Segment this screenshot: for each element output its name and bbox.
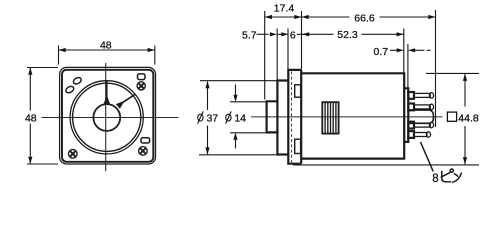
front view inner panel line xyxy=(62,70,153,162)
pin 2 xyxy=(408,104,433,111)
pin 4 xyxy=(408,131,430,138)
pin 1 xyxy=(408,92,433,99)
svg-text:17.4: 17.4 xyxy=(274,3,295,15)
vent grille xyxy=(322,102,338,133)
knob circle xyxy=(93,104,120,131)
dimension phi37 xyxy=(199,81,277,155)
dimension phi14 xyxy=(230,85,266,149)
svg-text:44.8: 44.8 xyxy=(458,112,479,124)
extension line B bezel front xyxy=(276,29,278,81)
label phi37 xyxy=(198,111,204,123)
extension line D body front xyxy=(301,11,303,70)
katakana pi xyxy=(442,171,451,182)
top-left mounting slot 1 xyxy=(72,76,82,85)
diagonal pointer at 45 degrees xyxy=(116,101,125,109)
side view bezel profile xyxy=(277,81,288,155)
side view flange front profile xyxy=(288,70,301,164)
side view horizontal centerline xyxy=(251,116,443,118)
dimension 48 left: dimension line xyxy=(29,68,31,111)
dimension 0.7 leader arrows xyxy=(390,44,431,88)
dial outer circle xyxy=(70,81,143,154)
dimension 52.3 dimension line xyxy=(302,29,404,73)
label phi14 xyxy=(226,111,232,123)
katakana n xyxy=(454,174,457,176)
top-right small rectangle window xyxy=(138,74,146,80)
dimension 66.6 dimension line xyxy=(302,10,436,127)
flange hidden dashed line xyxy=(291,72,293,163)
extension line F pin tips xyxy=(435,10,437,127)
svg-text:48: 48 xyxy=(25,113,37,125)
dimension 48 top: extension lines xyxy=(59,46,155,65)
dimension 48 left: extension lines xyxy=(27,68,58,165)
dimension square 44.8 xyxy=(293,73,479,164)
label square 44.8 xyxy=(447,112,456,121)
svg-text:6: 6 xyxy=(290,29,296,41)
svg-text:14: 14 xyxy=(234,113,246,125)
dial inner ring circle xyxy=(73,83,141,151)
top-left mounting slot 2 xyxy=(65,85,75,94)
svg-text:8: 8 xyxy=(432,173,438,185)
extension line E body rear xyxy=(403,29,405,73)
svg-text:52.3: 52.3 xyxy=(337,29,358,41)
front view vertical centerline xyxy=(105,63,107,171)
dimension 6 arrow and extension xyxy=(277,29,302,70)
top clip on body front xyxy=(295,85,301,97)
side view socket step xyxy=(404,88,408,142)
side view flange back line xyxy=(300,70,302,164)
svg-text:66.6: 66.6 xyxy=(354,12,375,24)
svg-text:0.7: 0.7 xyxy=(373,46,388,58)
bottom-right small rectangle window xyxy=(141,138,150,143)
svg-text:5.7: 5.7 xyxy=(242,29,257,41)
dimension 17.4 dimension line xyxy=(265,16,302,18)
svg-text:37: 37 xyxy=(206,113,218,125)
front view outer panel outline xyxy=(60,67,156,164)
dimension 5.7 leader and arrow xyxy=(257,29,278,81)
dimension 48 top: dimension line xyxy=(59,49,155,51)
bottom-right screw xyxy=(139,147,148,156)
center keying post xyxy=(408,110,433,123)
bottom-left screw xyxy=(69,150,78,159)
8-pin leader line xyxy=(421,142,434,172)
side view knob profile xyxy=(267,70,409,164)
bottom clip on body front xyxy=(295,139,301,153)
pin 3 xyxy=(408,122,433,129)
dimension 17.4 extension line A xyxy=(265,11,302,100)
front view horizontal centerline xyxy=(42,117,179,119)
top-right screw xyxy=(137,82,145,90)
needle pointer at 12 o'clock xyxy=(106,81,108,97)
svg-text:48: 48 xyxy=(100,39,112,51)
side view body outline xyxy=(301,73,404,158)
